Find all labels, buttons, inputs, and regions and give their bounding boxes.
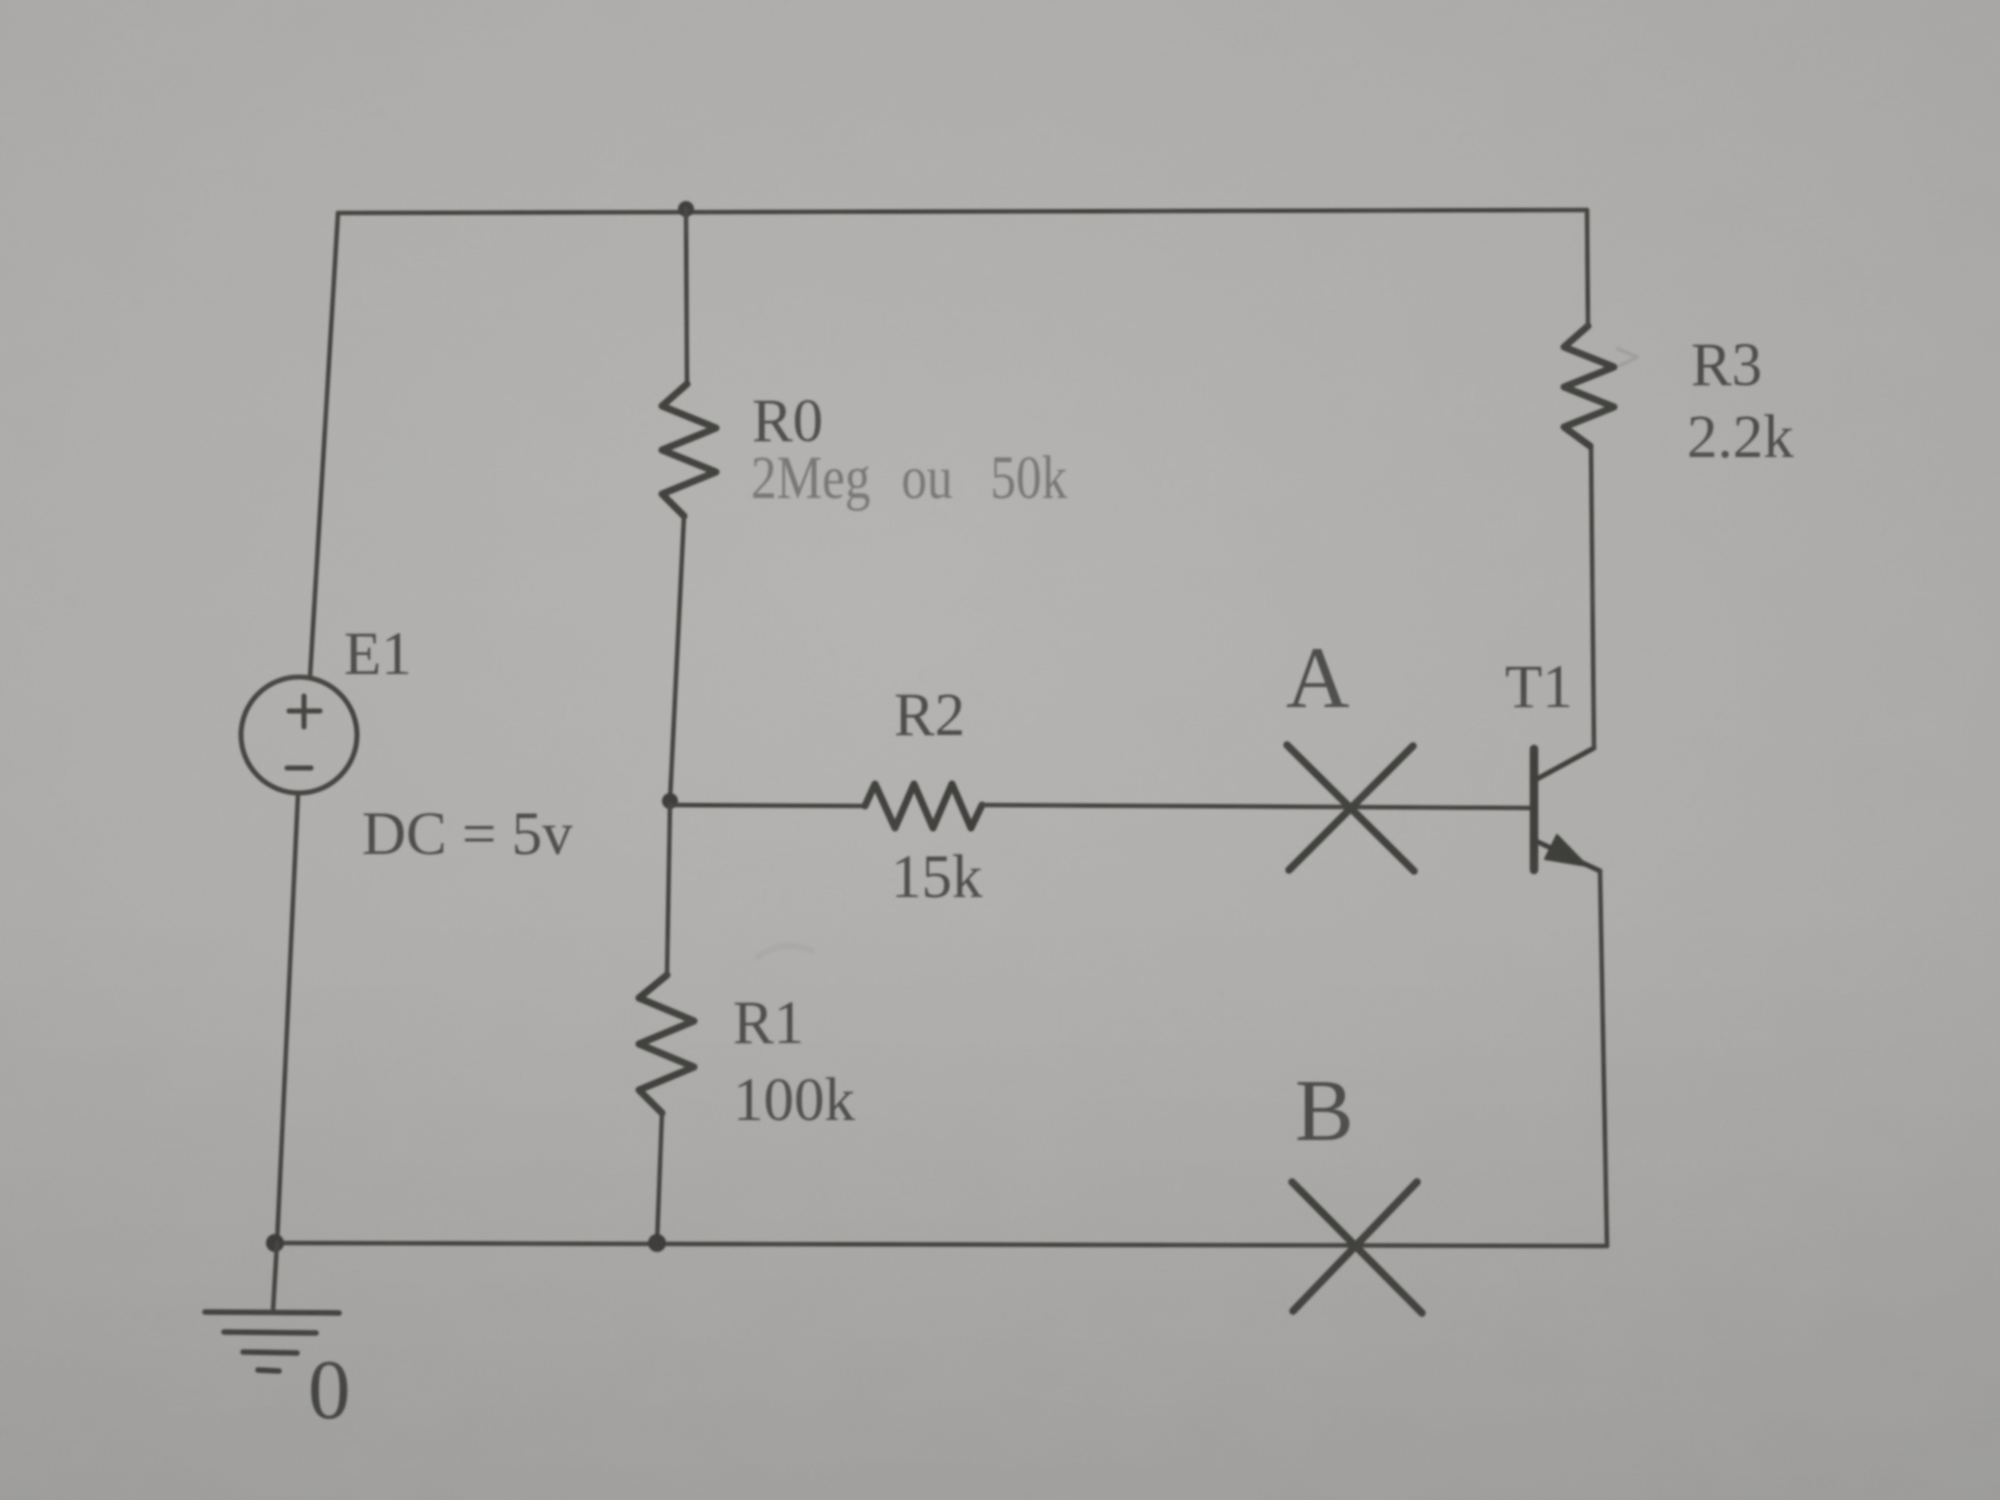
wire R1 bottom lead [657, 1113, 662, 1243]
ground [205, 1312, 339, 1371]
resistor R0 [662, 384, 716, 516]
resistor R1 [639, 975, 694, 1113]
node R1 bottom junction [648, 1234, 666, 1252]
resistor R3 [1564, 326, 1614, 446]
wire R2 left lead [670, 805, 865, 806]
transistor T1 [1534, 748, 1600, 871]
resistor R2 [865, 784, 982, 828]
node B cross [1292, 1182, 1422, 1313]
node top junction [678, 201, 694, 217]
wire collector to R3 [1591, 446, 1594, 748]
voltage source E1 [241, 677, 357, 793]
node A cross [1287, 745, 1414, 871]
wire R1 top lead [667, 805, 670, 975]
node middle junction [662, 793, 678, 809]
wire emitter to bottom rail [1600, 871, 1607, 1246]
wire R3 top lead [1587, 210, 1588, 326]
wire R2 to base [982, 805, 1530, 808]
artifact mark near R3 [1618, 349, 1637, 366]
wire R0 top lead [686, 209, 687, 384]
artifact smudge [758, 946, 812, 957]
wire ground stem [273, 1243, 277, 1311]
wire R0 bottom lead [670, 516, 684, 800]
wire left rail upper [310, 213, 338, 677]
wire left rail lower [277, 794, 298, 1243]
value 2Meg ou 50k [751, 445, 1068, 512]
wire bottom rail [277, 1243, 1607, 1246]
wire top rail [338, 210, 1587, 213]
node bottom left junction [266, 1234, 284, 1252]
